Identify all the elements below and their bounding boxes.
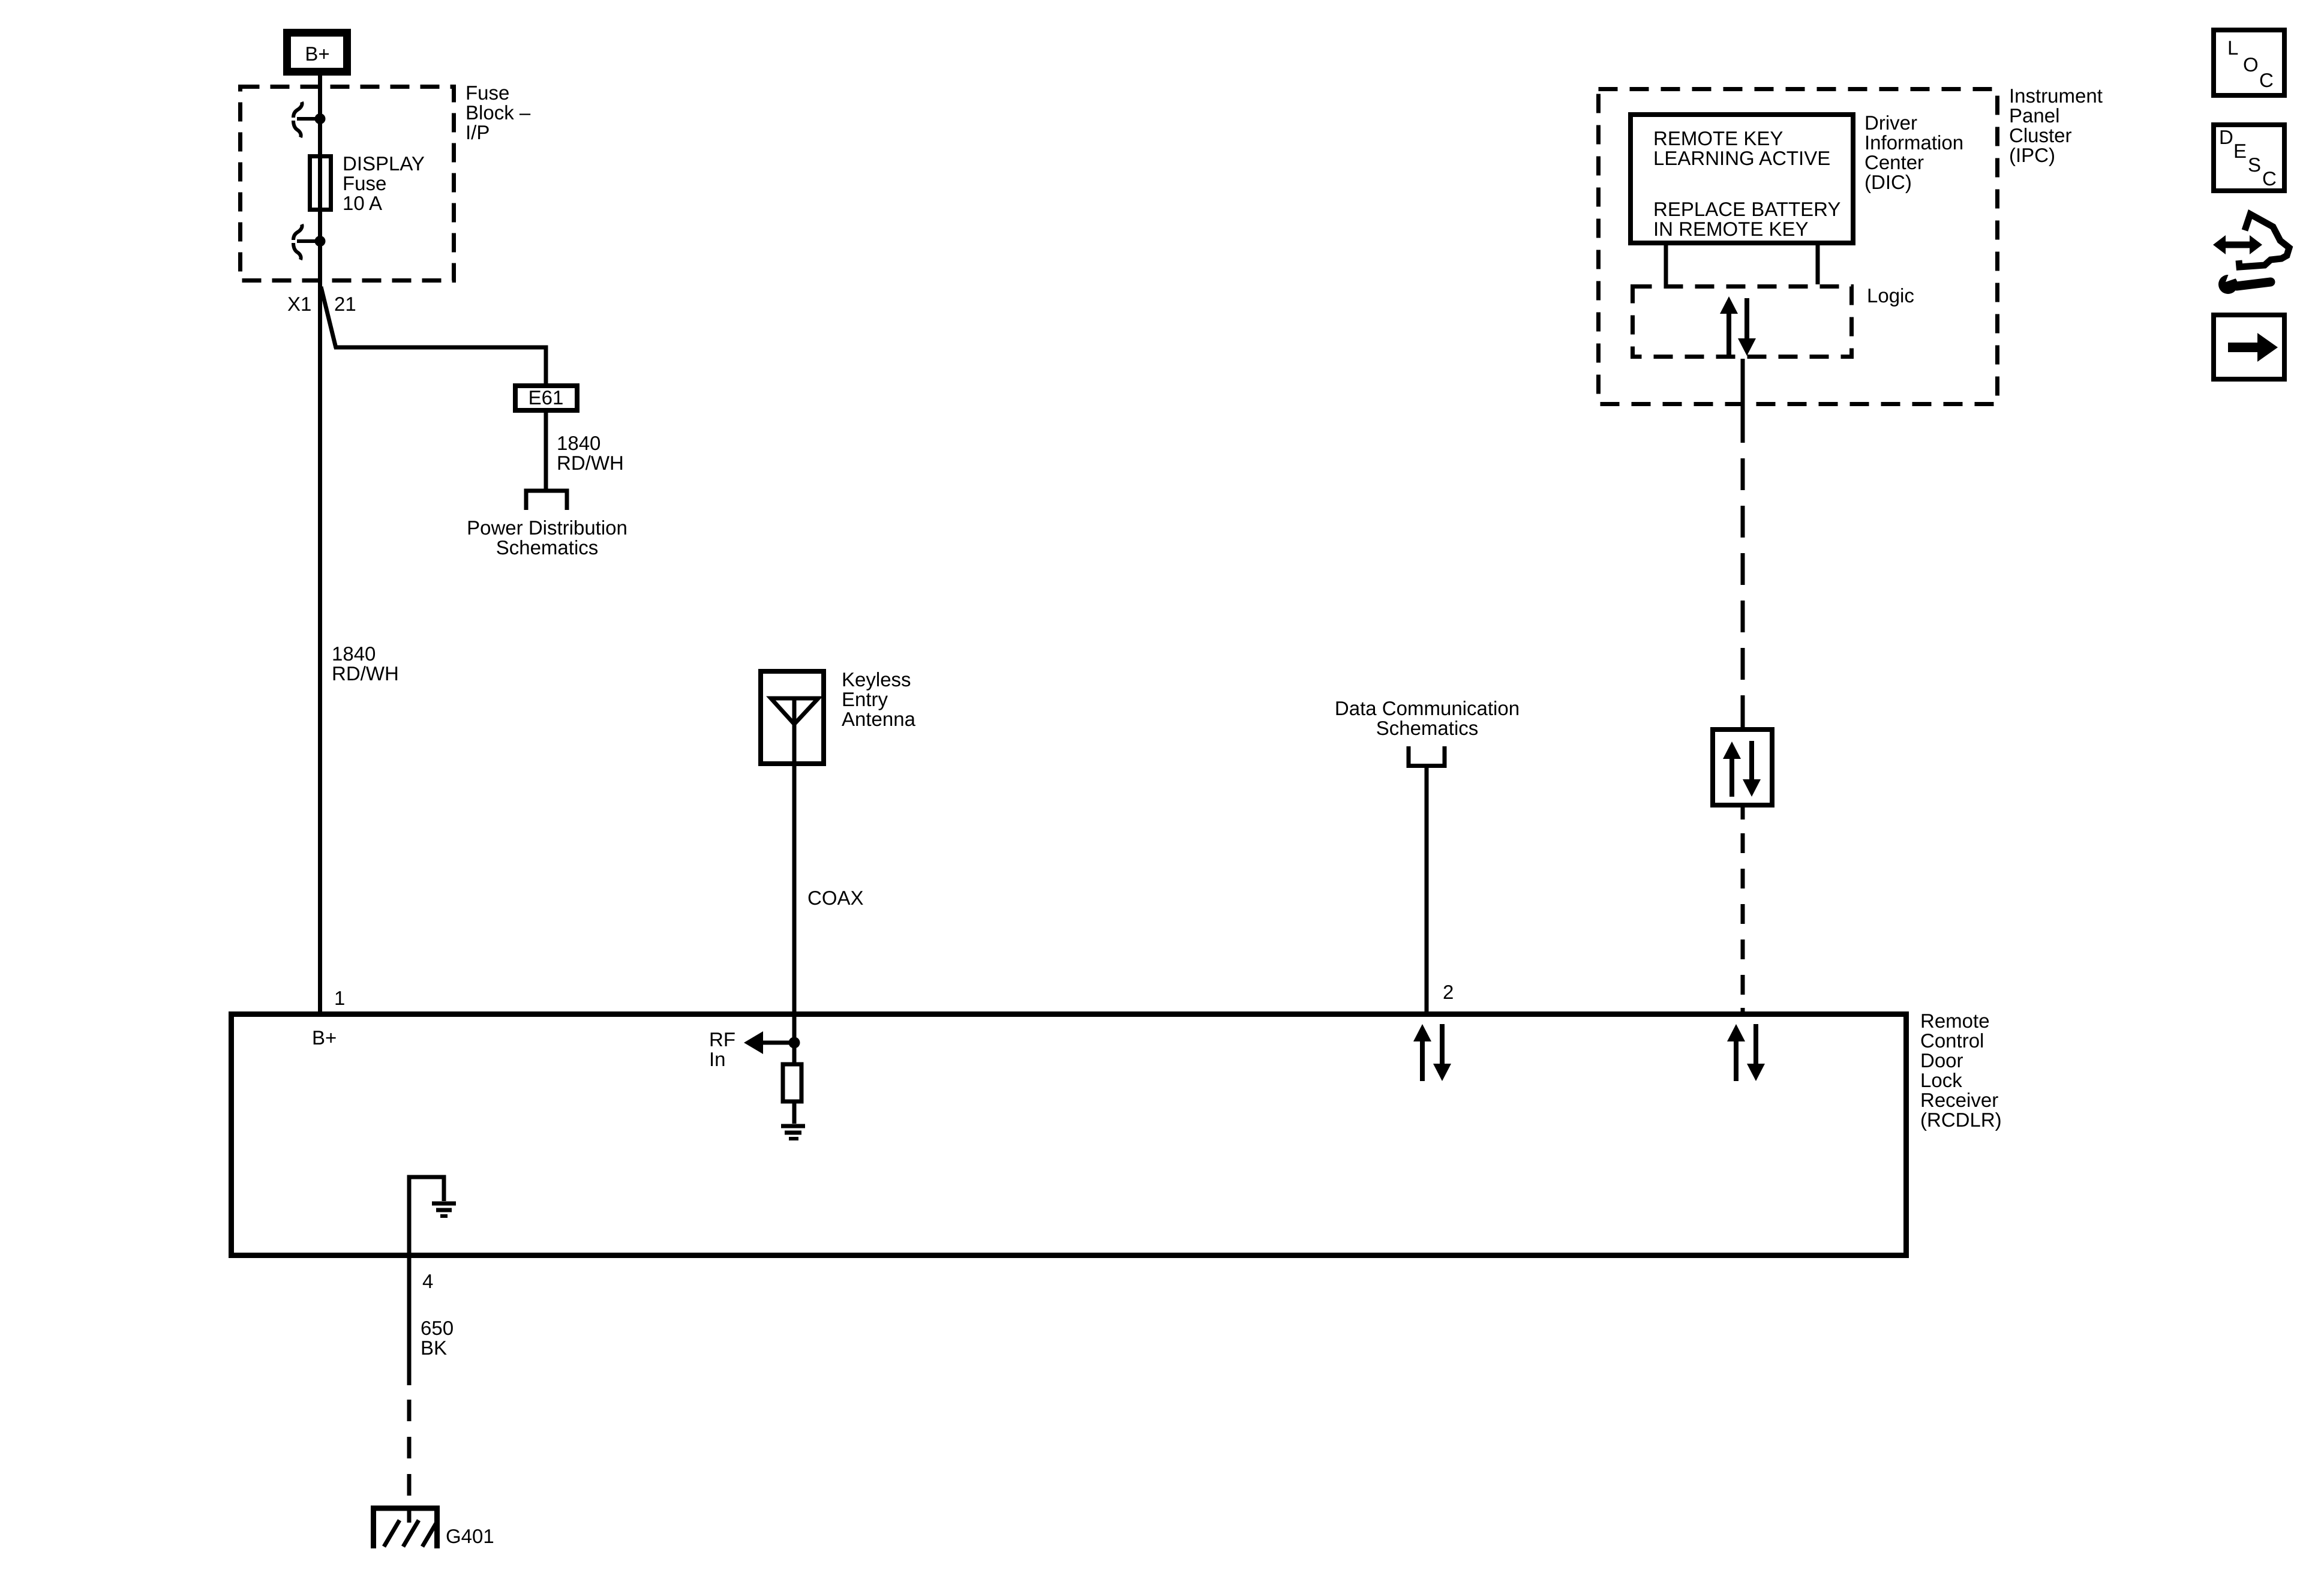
- svg-text:Block –: Block –: [466, 101, 531, 124]
- svg-text:Control: Control: [1920, 1029, 1984, 1052]
- svg-text:B+: B+: [312, 1026, 337, 1049]
- svg-text:S: S: [2248, 154, 2261, 176]
- svg-text:4: 4: [422, 1270, 433, 1292]
- svg-text:X1: X1: [287, 293, 311, 315]
- svg-text:RD/WH: RD/WH: [557, 452, 624, 474]
- svg-text:(DIC): (DIC): [1864, 171, 1912, 193]
- svg-text:Information: Information: [1864, 131, 1963, 154]
- svg-text:Lock: Lock: [1920, 1069, 1962, 1091]
- svg-text:E: E: [2233, 140, 2247, 162]
- svg-text:(RCDLR): (RCDLR): [1920, 1109, 2002, 1131]
- svg-text:I/P: I/P: [466, 121, 490, 143]
- svg-text:IN REMOTE KEY: IN REMOTE KEY: [1653, 218, 1809, 240]
- svg-text:1840: 1840: [332, 643, 376, 665]
- svg-text:REPLACE BATTERY: REPLACE BATTERY: [1653, 198, 1840, 220]
- svg-text:Schematics: Schematics: [496, 536, 599, 559]
- svg-text:Power Distribution: Power Distribution: [467, 517, 627, 539]
- svg-text:650: 650: [421, 1317, 454, 1339]
- svg-text:Entry: Entry: [842, 688, 888, 710]
- svg-text:2: 2: [1443, 981, 1454, 1003]
- svg-text:Panel: Panel: [2009, 104, 2059, 127]
- svg-text:In: In: [709, 1048, 726, 1070]
- svg-text:Schematics: Schematics: [1376, 717, 1479, 739]
- svg-text:BK: BK: [421, 1337, 447, 1359]
- svg-text:LEARNING ACTIVE: LEARNING ACTIVE: [1653, 147, 1830, 169]
- svg-text:DISPLAY: DISPLAY: [343, 152, 425, 175]
- svg-text:D: D: [2219, 126, 2233, 148]
- svg-text:Keyless: Keyless: [842, 668, 911, 691]
- svg-text:10 A: 10 A: [343, 192, 382, 214]
- svg-text:L: L: [2227, 37, 2238, 59]
- svg-text:G401: G401: [446, 1525, 494, 1547]
- svg-text:Logic: Logic: [1867, 284, 1914, 307]
- svg-text:Remote: Remote: [1920, 1010, 1990, 1032]
- svg-text:C: C: [2259, 69, 2274, 91]
- svg-text:Door: Door: [1920, 1049, 1963, 1071]
- svg-text:E61: E61: [529, 386, 564, 409]
- svg-text:Center: Center: [1864, 151, 1924, 173]
- svg-text:C: C: [2262, 167, 2277, 190]
- svg-text:Cluster: Cluster: [2009, 124, 2072, 146]
- svg-text:O: O: [2243, 53, 2259, 76]
- svg-text:Data Communication: Data Communication: [1335, 697, 1520, 719]
- svg-text:Antenna: Antenna: [842, 708, 916, 730]
- svg-text:(IPC): (IPC): [2009, 144, 2055, 166]
- svg-text:REMOTE KEY: REMOTE KEY: [1653, 127, 1783, 149]
- svg-text:1: 1: [334, 987, 345, 1009]
- svg-text:Instrument: Instrument: [2009, 85, 2103, 107]
- svg-text:B+: B+: [305, 43, 329, 65]
- svg-text:RF: RF: [709, 1028, 735, 1050]
- svg-text:1840: 1840: [557, 432, 600, 454]
- svg-text:Receiver: Receiver: [1920, 1089, 1998, 1111]
- svg-text:21: 21: [334, 293, 356, 315]
- svg-text:Driver: Driver: [1864, 112, 1917, 134]
- svg-text:COAX: COAX: [807, 887, 864, 909]
- svg-text:Fuse: Fuse: [343, 172, 386, 194]
- svg-text:RD/WH: RD/WH: [332, 662, 399, 685]
- svg-text:Fuse: Fuse: [466, 82, 509, 104]
